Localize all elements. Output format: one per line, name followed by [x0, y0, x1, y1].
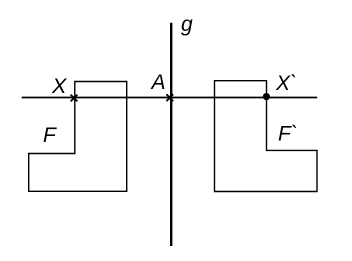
svg-text:A: A — [150, 71, 166, 94]
svg-text:g: g — [181, 13, 193, 36]
svg-text:X: X — [51, 74, 68, 98]
svg-text:F`: F` — [278, 123, 298, 146]
svg-text:F: F — [43, 124, 57, 147]
svg-text:X`: X` — [275, 72, 297, 95]
